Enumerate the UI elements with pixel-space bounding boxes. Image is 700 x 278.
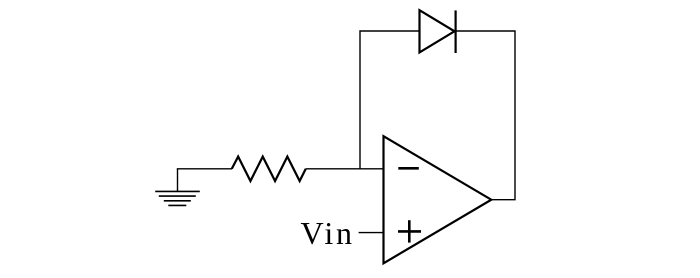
op-amp plus label	[398, 220, 421, 242]
wire ground to resistor	[177, 168, 232, 170]
resistor R1	[232, 157, 306, 181]
wire diode cathode to op-amp output (top right corner)	[456, 31, 515, 200]
diode D1	[420, 10, 456, 53]
op-amp U1	[384, 136, 492, 263]
op-amp minus label	[398, 167, 419, 170]
ground	[155, 169, 200, 206]
svg-text:Vin: Vin	[301, 215, 353, 251]
wire feedback left (vertical + top horizontal to diode anode)	[360, 31, 420, 169]
wire resistor to inverting input	[306, 168, 384, 170]
wire Vin to non-inverting input	[359, 232, 384, 234]
